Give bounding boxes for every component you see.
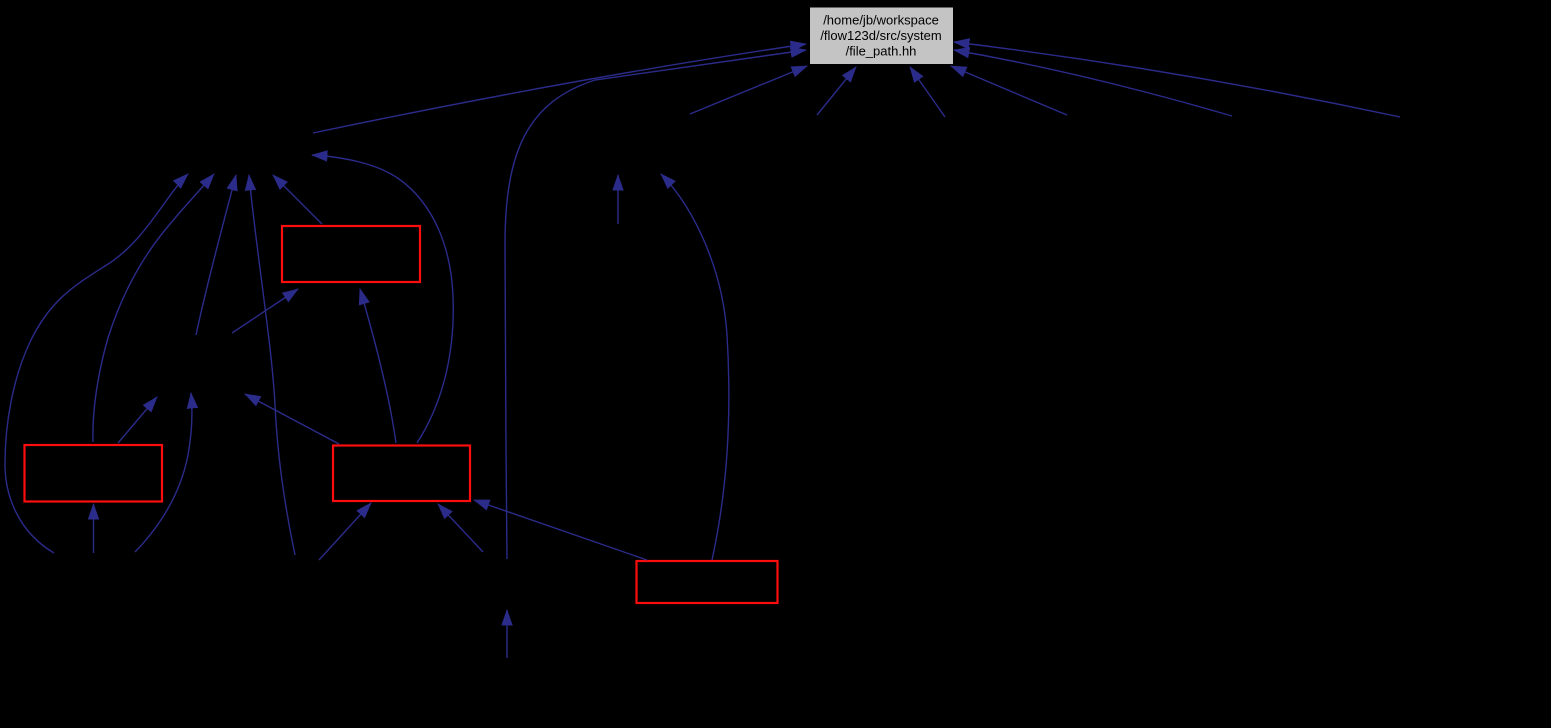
- svg-text:/file_path.hh: /file_path.hh: [846, 44, 917, 59]
- edge bottom node -> file_path.hh (long S curve up left side): [505, 50, 806, 559]
- edge box D -> rank2 node (tall right bulge curve): [661, 174, 729, 560]
- edge far-left bottom node -> hub (big left bow): [5, 174, 188, 553]
- edge rank2 node -> file_path.hh bottom (lean left): [910, 67, 945, 117]
- edge box C -> N3 bottom: [245, 394, 339, 444]
- edge hub system.hh -> file_path.hh (long straight to left edge): [313, 44, 806, 133]
- edge lower node -> box C bottom-left: [319, 503, 371, 560]
- edge N3 -> box A bottom: [232, 289, 298, 333]
- svg-text:/home/jb/workspace: /home/jb/workspace: [823, 13, 939, 28]
- edge lower mid node -> hub (long gentle): [249, 175, 295, 555]
- edge box C -> hub right side (big right bulge): [312, 155, 453, 443]
- edge rank2 node -> file_path.hh bottom-left corner: [690, 66, 807, 114]
- edge rank2 node -> file_path.hh right edge lower: [954, 50, 1232, 116]
- edge short vertical rank3 -> rank2 mid: [617, 175, 619, 224]
- edge bottom node -> lower mid node (short vertical): [506, 610, 508, 658]
- edge rank2 node -> file_path.hh bottom-right corner: [951, 66, 1067, 115]
- node U1 /home/jb/workspace/flow123d/src/system/file_path.hh (root, grey): [810, 7, 954, 65]
- edge rank2 node -> file_path.hh right edge upper: [954, 42, 1400, 117]
- edge bottom-left node -> box B (vertical): [93, 504, 95, 553]
- node B red box (lower left): [25, 445, 163, 502]
- edge box B -> N3: [118, 397, 157, 443]
- edge box D -> box C right edge: [474, 500, 647, 560]
- edge N3 -> hub (near vertical): [196, 175, 236, 335]
- node C red box (lower middle): [333, 446, 470, 502]
- node D red box (bottom middle): [637, 561, 778, 603]
- edge rank2 node -> file_path.hh bottom (steep): [817, 67, 856, 115]
- edge box B -> hub (left bow): [93, 174, 214, 442]
- svg-text:/flow123d/src/system: /flow123d/src/system: [820, 28, 941, 43]
- edge box A -> hub: [273, 175, 322, 224]
- edge bottom-left node -> N3 (right bulge): [135, 393, 192, 552]
- edge lower node -> box C bottom-right: [438, 504, 483, 552]
- node A red box (truncated includer, upper middle-left): [282, 226, 420, 282]
- edge box C -> box A bottom: [360, 289, 396, 443]
